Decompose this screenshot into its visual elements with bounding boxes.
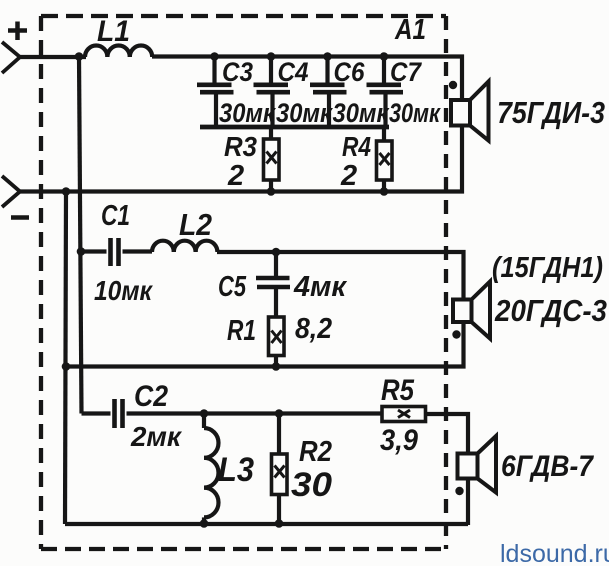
terminal - (minus sign) [11,215,29,220]
junction node (line B) [62,187,71,196]
svg-text:C3: C3 [222,57,253,87]
wire bottom rail [65,522,468,526]
capacitor C6 [310,57,347,128]
svg-text:C4: C4 [278,57,309,87]
capacitor C3 [197,57,234,128]
svg-text:R2: R2 [299,436,332,468]
capacitor C5 [256,252,290,317]
terminal - (input arrow) [2,176,20,207]
svg-text:C5: C5 [218,271,247,303]
svg-text:8,2: 8,2 [295,313,332,345]
junction C1 branch [77,247,86,256]
svg-text:30: 30 [291,466,332,504]
svg-text:(15ГДН1): (15ГДН1) [492,252,603,284]
wire mid band to speaker B2 [217,252,464,300]
speaker B3 6ГДВ-7 [458,436,497,493]
junction C6 [323,52,332,61]
wire + input to junction [20,55,86,59]
resistor R4 [377,127,393,192]
junction L3 bottom [200,519,209,528]
junction R2 top [275,409,284,418]
wire top rail L1 to speaker B1 [152,57,462,101]
wire C2 to R5 [204,411,382,415]
svg-text:30мк: 30мк [333,98,390,128]
svg-text:L1: L1 [97,15,130,48]
svg-text:R1: R1 [227,315,256,347]
junction C4 [267,52,276,61]
junction C5 branch [272,248,281,257]
svg-text:ldsound.ru: ldsound.ru [500,540,609,566]
capacitor C2 [82,399,205,428]
svg-text:A1: A1 [394,14,426,46]
speaker B1 75ГДИ-3 [451,82,489,141]
svg-text:4мк: 4мк [293,271,347,303]
capacitor C4 [254,57,291,128]
svg-text:20ГДС-3: 20ГДС-3 [494,293,607,328]
junction R3 bottom [267,187,276,196]
svg-text:C1: C1 [101,200,130,232]
svg-text:R3: R3 [224,131,257,162]
inductor L3 [204,414,219,524]
svg-text:2: 2 [340,160,357,192]
junction R4 bottom [380,187,389,196]
svg-text:R5: R5 [381,374,415,407]
svg-text:75ГДИ-3: 75ГДИ-3 [497,95,605,130]
junction R2 bottom [275,519,284,528]
svg-text:30мк: 30мк [219,98,276,128]
svg-text:C6: C6 [334,57,366,87]
wire line B (- feed down) [65,192,66,525]
wire mid return rail [66,322,464,367]
inductor L2 [152,241,217,252]
wire speaker B3 down [466,479,470,526]
capacitor C7 [367,57,404,128]
polarity dot B1 [449,81,457,89]
svg-text:2мк: 2мк [130,421,183,452]
unit A1 dashed boundary [41,16,446,549]
terminal + (input arrow) [2,42,20,73]
polarity dot B2 [452,330,460,338]
junction node (+ / line A) [75,52,84,61]
wire return rail (speaker B1 to - terminal) [20,126,462,192]
junction C7 [380,52,389,61]
svg-text:L3: L3 [218,451,254,489]
resistor R5 [382,407,426,422]
svg-text:10мк: 10мк [94,275,154,306]
svg-text:30мк: 30мк [389,98,441,128]
junction R1 bottom [272,362,281,371]
inductor L1 [85,46,152,58]
junction mid rail / line B [62,362,71,371]
svg-text:6ГДВ-7: 6ГДВ-7 [501,450,594,483]
svg-text:L2: L2 [179,207,212,242]
capacitor C1 [81,238,152,266]
svg-text:30мк: 30мк [276,98,333,128]
junction C3 [210,52,219,61]
polarity dot B3 [455,487,463,495]
wire line A (+ feed down) [79,57,82,414]
svg-text:C2: C2 [134,380,168,413]
resistor R2 [272,414,288,524]
terminal + (plus sign) [8,22,27,41]
resistor R1 [269,317,285,367]
wire R5 to speaker B3 [426,414,469,454]
svg-text:C7: C7 [390,57,423,87]
speaker B2 20ГДС-3 [453,282,490,339]
junction L3 top [200,409,209,418]
svg-text:R4: R4 [342,131,371,162]
resistor R3 [264,127,280,192]
wire capacitor bank bus [200,125,389,130]
svg-text:2: 2 [227,160,244,192]
svg-text:3,9: 3,9 [380,424,418,457]
